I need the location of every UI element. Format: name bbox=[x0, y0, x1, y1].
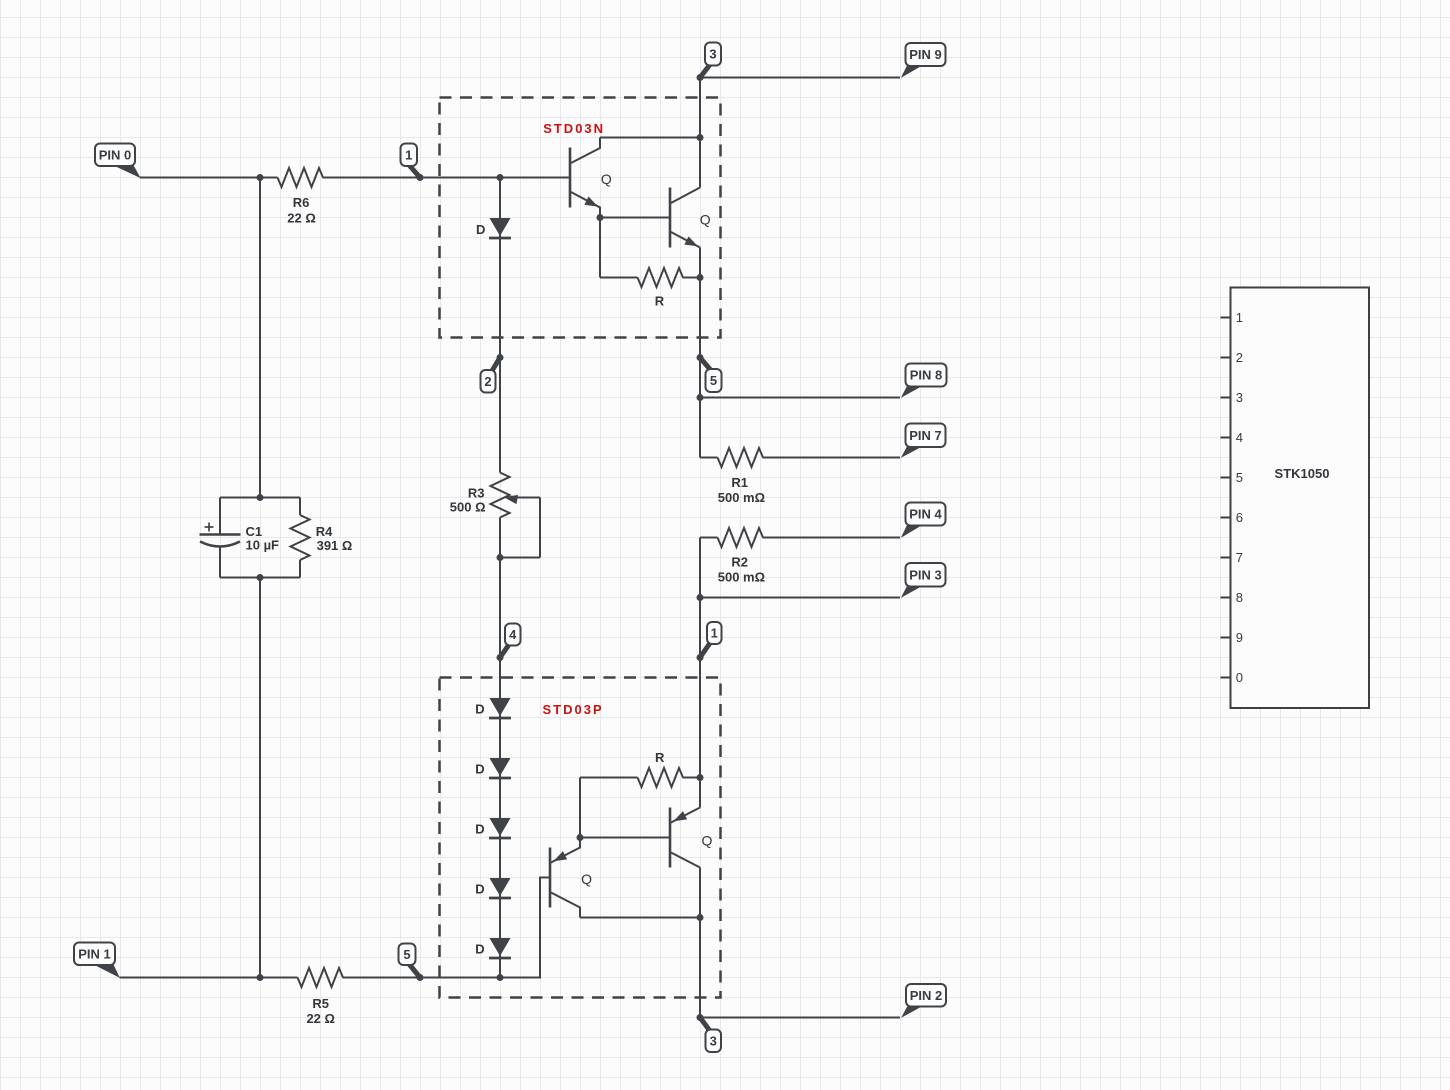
svg-text:Q: Q bbox=[581, 871, 592, 887]
svg-text:Q: Q bbox=[702, 833, 713, 849]
svg-text:5: 5 bbox=[1236, 470, 1243, 485]
svg-text:5: 5 bbox=[710, 373, 717, 388]
svg-text:R3: R3 bbox=[468, 485, 485, 500]
svg-text:2: 2 bbox=[1236, 350, 1243, 365]
svg-text:3: 3 bbox=[710, 1033, 717, 1048]
svg-text:STD03P: STD03P bbox=[543, 702, 604, 717]
svg-text:D: D bbox=[475, 702, 484, 717]
svg-text:PIN 8: PIN 8 bbox=[910, 368, 943, 383]
svg-text:1: 1 bbox=[1236, 310, 1243, 325]
svg-text:Q: Q bbox=[601, 171, 612, 187]
svg-text:4: 4 bbox=[1236, 430, 1243, 445]
svg-text:R2: R2 bbox=[731, 555, 748, 570]
svg-text:1: 1 bbox=[405, 147, 412, 162]
svg-text:7: 7 bbox=[1236, 550, 1243, 565]
svg-text:D: D bbox=[476, 222, 485, 237]
svg-text:10 µF: 10 µF bbox=[246, 537, 280, 552]
svg-text:3: 3 bbox=[709, 47, 716, 62]
svg-text:R: R bbox=[655, 750, 665, 765]
svg-text:PIN 4: PIN 4 bbox=[909, 507, 942, 522]
svg-text:PIN 9: PIN 9 bbox=[909, 47, 942, 62]
svg-text:PIN 1: PIN 1 bbox=[78, 946, 111, 961]
svg-text:D: D bbox=[475, 942, 484, 957]
svg-text:R5: R5 bbox=[312, 996, 329, 1011]
svg-text:D: D bbox=[475, 882, 484, 897]
svg-text:STD03N: STD03N bbox=[543, 121, 605, 136]
svg-text:500 mΩ: 500 mΩ bbox=[718, 490, 765, 505]
svg-text:500 Ω: 500 Ω bbox=[450, 499, 486, 514]
svg-text:R6: R6 bbox=[293, 195, 310, 210]
svg-text:3: 3 bbox=[1236, 390, 1243, 405]
svg-text:PIN 3: PIN 3 bbox=[909, 567, 942, 582]
svg-text:D: D bbox=[475, 822, 484, 837]
svg-text:22 Ω: 22 Ω bbox=[306, 1011, 335, 1026]
svg-text:D: D bbox=[475, 762, 484, 777]
svg-text:5: 5 bbox=[403, 947, 410, 962]
svg-text:6: 6 bbox=[1236, 510, 1243, 525]
svg-text:0: 0 bbox=[1236, 670, 1243, 685]
svg-text:R4: R4 bbox=[316, 524, 333, 539]
svg-text:STK1050: STK1050 bbox=[1275, 466, 1330, 481]
svg-text:500 mΩ: 500 mΩ bbox=[718, 570, 765, 585]
svg-text:9: 9 bbox=[1236, 630, 1243, 645]
svg-text:R1: R1 bbox=[731, 475, 748, 490]
svg-text:391 Ω: 391 Ω bbox=[317, 538, 353, 553]
svg-text:1: 1 bbox=[711, 626, 718, 641]
svg-text:PIN 0: PIN 0 bbox=[99, 147, 132, 162]
svg-text:2: 2 bbox=[484, 374, 491, 389]
svg-text:PIN 7: PIN 7 bbox=[909, 428, 942, 443]
svg-text:22 Ω: 22 Ω bbox=[287, 210, 316, 225]
svg-text:8: 8 bbox=[1236, 590, 1243, 605]
svg-text:R: R bbox=[655, 294, 665, 309]
svg-text:4: 4 bbox=[509, 627, 517, 642]
svg-text:Q: Q bbox=[700, 211, 711, 227]
svg-text:PIN 2: PIN 2 bbox=[910, 988, 943, 1003]
